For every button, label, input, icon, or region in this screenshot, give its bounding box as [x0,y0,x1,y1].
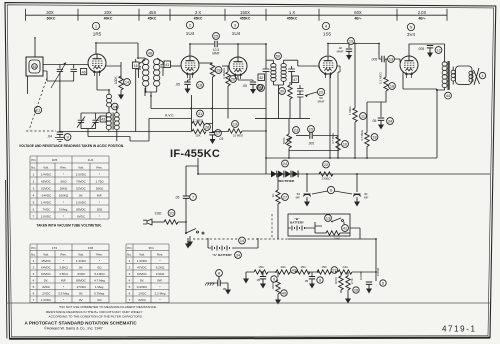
svg-text:24: 24 [283,162,287,166]
svg-text:1.4VDC: 1.4VDC [41,172,52,176]
svg-text:52VDC: 52VDC [76,186,87,190]
svg-text:Volt.: Volt. [43,253,49,257]
svg-text:-14VDC: -14VDC [41,193,53,197]
svg-text:15 MEG: 15 MEG [233,133,243,137]
svg-text:20X: 20X [104,10,112,15]
svg-text:4.7 Meg: 4.7 Meg [94,279,105,283]
svg-text:1S5: 1S5 [323,32,332,37]
svg-text:Pin: Pin [31,246,36,250]
svg-text:TAKEN WITH VACUUM TUBE VOLTMET: TAKEN WITH VACUUM TUBE VOLTMETER. [36,224,101,228]
svg-text:39Ω: 39Ω [280,265,285,269]
svg-text:10: 10 [343,143,347,147]
svg-text:47VDC: 47VDC [137,266,148,270]
svg-text:20Ω: 20Ω [97,207,103,211]
svg-text:24Ω: 24Ω [342,265,347,269]
svg-text:3V4: 3V4 [148,246,154,250]
svg-text:2.0VDC: 2.0VDC [76,172,87,176]
svg-text:65VDC: 65VDC [41,179,52,183]
svg-text:64VDC: 64VDC [41,272,52,276]
svg-text:46: 46 [82,70,86,74]
svg-text:9.8Ω: 9.8Ω [155,212,162,216]
svg-text:3: 3 [33,186,35,190]
svg-text:Pin: Pin [31,158,36,162]
svg-text:23: 23 [294,129,298,133]
svg-text:16: 16 [198,84,202,88]
svg-text:.3VDC: .3VDC [77,272,87,276]
svg-text:*DO NOT USE OHMMETER TO MEASUR: *DO NOT USE OHMMETER TO MEASURE FILAMENT… [59,305,157,309]
svg-text:7: 7 [129,298,131,302]
svg-text:45KC: 45KC [194,17,203,21]
svg-text:0V.: 0V. [79,193,83,197]
svg-text:1 X: 1 X [289,10,295,15]
svg-text:24: 24 [258,86,262,90]
svg-text:43: 43 [101,118,105,122]
svg-text:13: 13 [326,217,330,221]
svg-text:4: 4 [325,24,328,29]
svg-text:18: 18 [390,85,394,89]
svg-text:.05: .05 [304,279,309,283]
svg-text:0.4VDC: 0.4VDC [137,285,148,289]
svg-text:15Ω: 15Ω [300,265,305,269]
svg-text:Volt.: Volt. [139,253,145,257]
svg-text:No.: No. [31,253,36,257]
svg-text:1 Meg.: 1 Meg. [95,285,104,289]
svg-text:3.3 Meg: 3.3 Meg [58,292,69,296]
svg-text:9: 9 [66,136,68,140]
svg-text:22: 22 [324,163,328,167]
svg-text:Volt.: Volt. [78,165,84,169]
svg-text:*: * [63,214,65,218]
svg-text:3 Meg.: 3 Meg. [59,207,68,211]
svg-text:2.0VDC: 2.0VDC [76,200,87,204]
svg-text:0Ω: 0Ω [98,298,103,302]
svg-text:“A” BATTERY: “A” BATTERY [212,253,232,257]
svg-text:Res.: Res. [96,253,102,257]
svg-text:40: 40 [282,292,286,296]
svg-text:1 MEG: 1 MEG [348,106,352,115]
svg-text:5: 5 [33,200,35,204]
svg-text:1S5: 1S5 [88,246,94,250]
svg-text:52VDC: 52VDC [41,186,52,190]
svg-text:28: 28 [216,69,220,73]
svg-text:8: 8 [319,279,321,283]
svg-text:0.7Meg.: 0.7Meg. [94,292,105,296]
svg-text:44: 44 [446,94,450,98]
svg-text:11: 11 [361,115,365,119]
svg-text:8: 8 [218,272,220,276]
svg-text:.005: .005 [418,47,425,51]
svg-text:*: * [99,259,101,263]
svg-text:21: 21 [36,108,41,113]
svg-text:.05: .05 [219,137,224,141]
svg-text:*: * [159,298,161,302]
svg-text:INF.: INF. [97,193,103,197]
svg-text:20: 20 [169,212,173,216]
svg-text:Res.: Res. [96,165,102,169]
svg-text:BATTERY: BATTERY [290,221,304,225]
svg-text:1: 1 [33,259,35,263]
svg-text:64VDC: 64VDC [137,272,148,276]
svg-text:Volt.: Volt. [78,253,84,257]
svg-text:14: 14 [125,81,129,85]
svg-text:4.7 MEG: 4.7 MEG [331,133,335,144]
svg-text:4: 4 [129,279,131,283]
svg-text:15K: 15K [196,133,201,137]
svg-text:1T4: 1T4 [52,246,58,250]
svg-text:.05: .05 [256,278,261,282]
svg-text:40KC: 40KC [104,17,113,21]
svg-text:3 X: 3 X [195,10,201,15]
svg-text:.17VDC: .17VDC [76,285,87,289]
svg-text:3: 3 [234,23,237,28]
svg-text:6: 6 [33,292,35,296]
svg-text:19: 19 [349,40,353,44]
svg-text:3.5KΩ: 3.5KΩ [156,272,165,276]
svg-text:1U4: 1U4 [232,31,241,36]
svg-text:A.V.C.: A.V.C. [165,114,175,118]
svg-text:455KC: 455KC [240,17,251,21]
svg-text:1.3VDC: 1.3VDC [41,298,52,302]
svg-text:1U4: 1U4 [88,158,94,162]
svg-text:RECTIFIER: RECTIFIER [278,179,295,183]
svg-text:Res.: Res. [60,253,66,257]
svg-text:1K: 1K [271,193,275,197]
svg-text:100K: 100K [114,76,118,84]
svg-text:2.5K: 2.5K [350,278,354,284]
svg-text:34: 34 [388,120,392,124]
svg-text:34: 34 [236,254,240,258]
svg-text:1U4: 1U4 [186,31,195,36]
svg-text:30X: 30X [46,10,54,15]
svg-text:1.4VDC: 1.4VDC [41,200,52,204]
svg-text:60KC: 60KC [47,17,56,21]
svg-text:4B∿: 4B∿ [418,17,425,21]
svg-text:4.7 MEG: 4.7 MEG [360,130,364,141]
svg-text:47: 47 [293,78,297,82]
svg-text:.05: .05 [222,287,227,291]
svg-text:4B∿: 4B∿ [354,17,361,21]
svg-text:6: 6 [330,188,333,193]
svg-text:.005: .005 [371,58,378,62]
svg-text:28: 28 [354,289,358,293]
svg-text:6: 6 [129,292,131,296]
svg-text:50: 50 [276,55,280,59]
svg-text:1: 1 [33,172,35,176]
svg-text:1.75Ω: 1.75Ω [95,179,104,183]
svg-text:44: 44 [113,105,117,109]
svg-text:18: 18 [372,136,376,140]
svg-text:.05: .05 [372,119,377,123]
svg-text:2: 2 [33,266,35,270]
svg-text:6VDC: 6VDC [77,214,86,218]
svg-text:.05: .05 [175,196,180,200]
svg-text:INF.: INF. [157,279,163,283]
svg-text:*: * [159,285,161,289]
svg-text:3.5KΩ: 3.5KΩ [59,266,68,270]
svg-text:0V.: 0V. [79,298,83,302]
svg-text:*: * [63,259,65,263]
svg-text:0Ω: 0Ω [98,266,103,270]
svg-text:3.3MEG: 3.3MEG [222,67,226,79]
svg-text:70VDC: 70VDC [76,179,87,183]
svg-text:19: 19 [233,123,237,127]
svg-text:2.2MEG: 2.2MEG [193,118,203,122]
svg-text:20KΩ: 20KΩ [60,186,68,190]
svg-text:0V.: 0V. [44,279,48,283]
svg-text:2: 2 [33,179,35,183]
svg-text:.7VDC: .7VDC [42,207,52,211]
svg-text:16: 16 [134,64,138,68]
svg-text:150X: 150X [240,10,250,15]
svg-text:17: 17 [216,132,220,136]
svg-text:7: 7 [33,298,35,302]
svg-text:0V.: 0V. [140,279,144,283]
svg-text:RESISTANCE READINGS IN THE B+: RESISTANCE READINGS IN THE B+ CIRCUITS M… [46,310,142,314]
svg-text:.04: .04 [47,135,52,139]
svg-text:9: 9 [273,278,275,282]
svg-text:2.0X: 2.0X [418,10,427,15]
svg-text:45KC: 45KC [148,17,157,21]
svg-text:MMF: MMF [318,99,325,103]
svg-text:3: 3 [129,272,131,276]
svg-text:2.2 Meg: 2.2 Meg [155,292,166,296]
svg-text:INF.: INF. [61,279,67,283]
svg-text:14: 14 [240,239,244,243]
svg-text:6: 6 [33,207,35,211]
svg-text:6: 6 [382,282,384,286]
svg-text:*: * [63,172,65,176]
svg-text:.45X: .45X [148,10,157,15]
svg-text:.005: .005 [308,142,314,146]
svg-text:4VDC: 4VDC [138,298,147,302]
svg-text:60X: 60X [354,10,362,15]
svg-text:6.2KΩ: 6.2KΩ [156,266,165,270]
svg-text:.2VDC: .2VDC [42,292,52,296]
svg-text:85VDC: 85VDC [76,207,87,211]
svg-text:15: 15 [309,128,313,132]
svg-text:46: 46 [148,52,152,56]
svg-text:ACCORDING TO THE CONDITION OF: ACCORDING TO THE CONDITION OF THE FILTER… [49,315,142,319]
svg-text:2: 2 [129,266,131,270]
svg-text:*: * [99,200,101,204]
svg-text:3-5Ω: 3-5Ω [334,237,341,241]
svg-text:80VDC: 80VDC [76,279,87,283]
svg-text:Pin: Pin [127,246,132,250]
svg-text:41: 41 [343,227,347,231]
svg-text:*: * [63,285,65,289]
svg-text:5-10KΩ: 5-10KΩ [94,272,105,276]
svg-text:1.3VDC: 1.3VDC [137,259,148,263]
svg-text:7: 7 [192,196,194,200]
svg-text:A PHOTOFACT STANDARD NOTATION: A PHOTOFACT STANDARD NOTATION SCHEMATIC [25,321,138,326]
svg-text:30: 30 [280,90,284,94]
svg-text:42: 42 [259,76,263,80]
svg-text:455KC: 455KC [287,17,298,21]
svg-text:1: 1 [95,24,98,29]
svg-text:100MF: 100MF [359,271,363,280]
svg-text:4: 4 [33,279,35,283]
svg-text:15Ω: 15Ω [258,265,263,269]
svg-text:.05: .05 [175,83,180,87]
svg-text:3V4: 3V4 [407,32,416,37]
svg-text:3: 3 [33,272,35,276]
svg-text:Volt.: Volt. [43,165,49,169]
svg-text:7: 7 [33,214,35,218]
svg-text:MF: MF [364,195,368,199]
svg-text:*: * [159,259,161,263]
svg-text:Res.: Res. [60,165,66,169]
svg-text:27: 27 [283,196,287,200]
svg-text:5: 5 [33,285,35,289]
svg-text:MMF: MMF [212,52,219,56]
svg-text:1300Ω: 1300Ω [322,177,332,181]
svg-text:3.5KΩ: 3.5KΩ [59,272,68,276]
svg-text:26: 26 [231,78,235,82]
svg-text:25: 25 [214,35,218,39]
svg-text:45VDC: 45VDC [41,259,52,263]
svg-text:©Howard W. Sams & Co., Inc. 19: ©Howard W. Sams & Co., Inc. 1947 [44,327,103,331]
svg-text:4: 4 [482,74,484,78]
svg-text:5.3 MEG: 5.3 MEG [379,71,383,84]
svg-text:4: 4 [33,193,35,197]
svg-text:28: 28 [205,126,209,130]
svg-text:IF-455KC: IF-455KC [170,148,220,160]
svg-text:2: 2 [189,23,192,28]
svg-text:0V.: 0V. [79,266,83,270]
svg-text:MF: MF [296,195,300,199]
svg-text:1: 1 [129,259,131,263]
svg-text:13: 13 [389,58,393,62]
svg-text:*: * [63,200,65,204]
svg-text:12: 12 [436,49,440,53]
svg-text:45: 45 [33,65,37,69]
svg-text:VOLTAGE AND RESISTANCE READING: VOLTAGE AND RESISTANCE READINGS TAKEN IN… [19,144,124,148]
svg-text:*: * [63,298,65,302]
svg-text:680Ω: 680Ω [271,282,275,289]
svg-text:31: 31 [198,112,202,116]
svg-text:41: 41 [165,63,169,67]
svg-text:MMF: MMF [337,49,344,53]
svg-text:5KΩ: 5KΩ [61,179,68,183]
svg-text:600Ω: 600Ω [334,277,338,284]
svg-text:.05: .05 [242,84,247,88]
svg-text:.1VDC: .1VDC [138,292,148,296]
svg-text:2.0VDC: 2.0VDC [41,214,52,218]
svg-text:100KΩ: 100KΩ [59,193,69,197]
svg-text:No.: No. [127,253,132,257]
svg-text:*: * [99,172,101,176]
svg-text:15Ω: 15Ω [321,265,326,269]
svg-text:64VDC: 64VDC [41,266,52,270]
svg-text:4VDC: 4VDC [42,285,51,289]
svg-text:5: 5 [129,285,131,289]
svg-text:1R5: 1R5 [93,32,102,37]
svg-text:500K: 500K [282,137,286,144]
svg-text:5: 5 [410,25,413,30]
svg-text:0V.: 0V. [79,292,83,296]
svg-text:20KΩ: 20KΩ [96,186,104,190]
svg-text:Res.: Res. [157,253,163,257]
svg-text:*: * [99,214,101,218]
svg-text:22: 22 [319,90,324,95]
svg-text:1.4VDC: 1.4VDC [76,259,87,263]
svg-text:4719-1: 4719-1 [442,325,477,334]
svg-text:1R5: 1R5 [52,158,58,162]
svg-text:No.: No. [31,165,36,169]
